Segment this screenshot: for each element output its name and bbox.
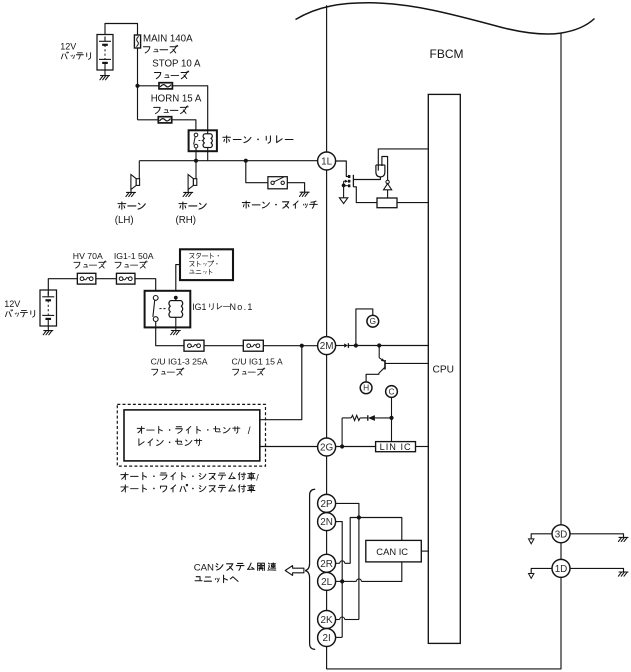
- wire MOSFET gate to resistor network: [353, 187, 377, 203]
- wire start-stop unit to relay coil: [176, 265, 180, 298]
- node: sensor tap junction: [300, 344, 304, 348]
- resistor R1 (box): [377, 198, 397, 208]
- LIN IC box U2: [376, 442, 416, 452]
- label horn (LH): [118, 202, 145, 209]
- connector C: [386, 386, 398, 398]
- horn (RH) speaker: [188, 175, 197, 190]
- svg-text:3D: 3D: [555, 529, 568, 540]
- wire 2G to LIN IC: [336, 446, 376, 448]
- svg-text:2G: 2G: [320, 442, 333, 453]
- wire to horn LH: [138, 161, 140, 179]
- ground horn RH: [187, 190, 189, 193]
- ground IG1 relay coil: [171, 331, 181, 335]
- horn relay coil: [207, 130, 209, 134]
- wire sensor to 2G: [260, 446, 318, 448]
- resistor R2 zigzag: [351, 415, 360, 420]
- wire node down to LIN IC: [391, 418, 393, 442]
- node: transistor branch junction: [377, 343, 381, 347]
- wire 2R with hop to CAN-H rail: [336, 562, 340, 564]
- svg-text:CAN: CAN: [194, 562, 214, 573]
- svg-text:(LH): (LH): [115, 215, 134, 226]
- connector 2R: [318, 554, 336, 572]
- battery B2 12V: [40, 290, 57, 326]
- horn (LH) speaker: [131, 175, 140, 190]
- wire transistor to H connector: [366, 373, 379, 382]
- FBCM right boundary wire: [560, 33, 562, 525]
- ground 1D: [618, 572, 628, 576]
- wire pullup branch: [342, 417, 351, 419]
- connector 2L: [318, 572, 336, 590]
- CPU box U1: [428, 94, 460, 643]
- svg-text:IG1-1 50A: IG1-1 50A: [114, 251, 154, 261]
- connector G: [367, 315, 379, 327]
- wire source to logic-ground triangle: [343, 185, 345, 197]
- node: CAN-L 2L junction: [340, 579, 344, 583]
- connector 3D: [552, 525, 570, 543]
- start-stop unit box: [180, 249, 233, 280]
- node: horn switch junction: [244, 159, 248, 163]
- wire 1D left to page arrow: [531, 568, 552, 573]
- fuse C/U IG1-3 25A: [184, 340, 204, 351]
- svg-text:2I: 2I: [322, 633, 330, 644]
- CAN system arrow: [285, 566, 304, 576]
- connector 2P: [318, 494, 336, 512]
- wire 1L to MOSFET drain: [336, 161, 348, 177]
- wire tube to MOSFET bar: [353, 177, 380, 180]
- wire 2N to CAN-L rail: [336, 522, 343, 638]
- svg-text:G: G: [370, 316, 377, 326]
- wire to horn RH: [195, 161, 197, 179]
- svg-text:2L: 2L: [321, 577, 332, 588]
- wire resistor to CPU: [397, 202, 428, 204]
- svg-text:(RH): (RH): [176, 215, 196, 226]
- connector 1D: [552, 559, 570, 577]
- svg-text:HV 70A: HV 70A: [73, 251, 103, 261]
- wire IG1-1 fuse to relay: [135, 279, 156, 296]
- connector 1L: [318, 152, 336, 170]
- auto light/rain sensor dashed box: [117, 404, 265, 466]
- svg-text:MAIN 140A: MAIN 140A: [143, 34, 193, 45]
- node: CAN-H junction: [357, 515, 361, 519]
- wire 3D left to page arrow: [531, 534, 552, 539]
- connector 2G: [318, 438, 336, 456]
- diode D2: [367, 415, 369, 421]
- system notes: [121, 472, 255, 480]
- inline connector symbol: [344, 343, 348, 347]
- svg-text:2R: 2R: [320, 559, 333, 570]
- FBCM module boundary curve: [296, 3, 595, 34]
- horn relay label: [223, 136, 293, 143]
- node: 2G junction: [340, 444, 344, 448]
- wire LIN IC to CPU: [416, 446, 429, 448]
- wire C to LIN node: [391, 397, 393, 418]
- wire battery2 to HV fuse: [48, 279, 77, 295]
- svg-text:2K: 2K: [321, 615, 333, 626]
- horn switch SW1: [268, 177, 287, 189]
- horn switch label: [242, 201, 317, 208]
- svg-text:12V: 12V: [4, 299, 20, 309]
- battery label: [61, 52, 90, 59]
- wire to horn switch: [246, 161, 268, 183]
- wire battery1 to MAIN fuse: [105, 24, 138, 36]
- logic ground triangle: [339, 198, 347, 204]
- node: junction MAIN/STOP/HORN: [135, 84, 139, 88]
- svg-text:12V: 12V: [60, 41, 76, 51]
- fuse MAIN 140A: [134, 35, 140, 48]
- connector 2K: [318, 611, 336, 629]
- wire tap down to sensor box: [260, 346, 302, 420]
- battery B1 12V: [97, 35, 113, 71]
- ground horn LH: [130, 190, 132, 193]
- wire junction down to HORN fuse line: [137, 86, 139, 120]
- label horn (RH): [179, 202, 206, 209]
- wire 2G up branch: [341, 418, 343, 447]
- brace for CAN connectors: [305, 489, 315, 649]
- ground below battery2: [47, 326, 49, 331]
- svg-text:2N: 2N: [320, 517, 333, 528]
- IG1 relay No.1 box: [145, 291, 191, 328]
- node: G branch junction: [354, 343, 358, 347]
- svg-text:1L: 1L: [321, 156, 332, 167]
- connector 2M: [318, 337, 336, 355]
- wire 2L with hop to CAN IC: [336, 580, 343, 582]
- node: coil top junction: [174, 296, 178, 300]
- svg-text:No.1: No.1: [230, 302, 254, 312]
- connector 2N: [318, 513, 336, 531]
- ground 3D: [618, 537, 628, 541]
- svg-text:CPU: CPU: [433, 365, 455, 376]
- svg-text:HORN 15 A: HORN 15 A: [151, 93, 202, 104]
- wire to G connector: [356, 309, 373, 346]
- fuse HV 70A: [77, 273, 96, 284]
- node: MOSFET source junction: [342, 184, 346, 188]
- svg-text:1D: 1D: [555, 564, 568, 575]
- MOSFET body arrow + source: [344, 180, 348, 182]
- svg-text:CAN IC: CAN IC: [376, 546, 408, 557]
- wire HV to IG1-1 fuse: [96, 278, 117, 280]
- wire junction to STOP fuse to relay coil: [138, 86, 208, 131]
- IG1 relay switch: [153, 296, 158, 301]
- ground horn switch: [300, 192, 310, 196]
- node: LIN pullup junction: [389, 416, 393, 420]
- wire 2P to CAN-H rail: [336, 503, 359, 619]
- wire IG1 relay to C/U fuses to 2M: [156, 322, 318, 346]
- connector H: [360, 382, 372, 394]
- svg-text:STOP 10 A: STOP 10 A: [152, 58, 201, 69]
- horn relay box: [189, 130, 217, 151]
- wire CAN IC to CPU: [421, 550, 428, 552]
- svg-text:FBCM: FBCM: [430, 47, 464, 61]
- svg-text:/: /: [248, 426, 251, 437]
- wire HORN fuse line to relay switch: [138, 120, 196, 131]
- transistor Q2: [378, 346, 380, 358]
- fuse STOP 10 A: [159, 83, 172, 89]
- svg-text:2P: 2P: [321, 499, 333, 510]
- ground below battery1: [104, 70, 106, 76]
- wire CAN-H junction to CAN IC: [359, 518, 402, 541]
- IG1 relay coil: [175, 298, 177, 301]
- svg-text:C/U IG1 15 A: C/U IG1 15 A: [232, 356, 283, 366]
- wire: bus bottom to right boundary: [327, 577, 561, 669]
- fuse C/U IG1 15 A: [243, 340, 263, 351]
- svg-text:IG1: IG1: [192, 302, 206, 312]
- fuse IG1-1 50A: [116, 273, 135, 284]
- connector 2I: [318, 629, 336, 647]
- wire 3D right to ground: [570, 534, 623, 538]
- current sense element (tube): [376, 165, 385, 177]
- wire tube to zener: [382, 157, 388, 181]
- wire horn switch to ground: [287, 183, 304, 193]
- horn feed line to 1L: [139, 160, 317, 162]
- svg-text:2M: 2M: [320, 341, 334, 352]
- zener/thermistor symbol D1: [386, 180, 389, 183]
- MOSFET Q1 (high-side driver): [348, 175, 350, 187]
- horn relay switch contacts: [194, 133, 198, 137]
- node: horn RH junction: [194, 159, 198, 163]
- fuse HORN 15 A: [158, 117, 171, 123]
- wire CPU to tube: [378, 149, 428, 171]
- wire 1D right to ground: [570, 568, 623, 572]
- svg-text:C: C: [388, 386, 394, 396]
- wire 2K with hop to CAN-H rail: [336, 619, 340, 621]
- wire relay switch to horn line: [195, 148, 197, 161]
- svg-text:/: /: [256, 472, 259, 482]
- svg-text:H: H: [363, 383, 369, 393]
- wire MAIN fuse to junction: [137, 48, 139, 86]
- wire 2M to CPU: [336, 345, 345, 347]
- CAN IC box U3: [366, 540, 422, 562]
- svg-text:C/U IG1-3 25A: C/U IG1-3 25A: [151, 356, 208, 366]
- FBCM left boundary / connector bus wire: [326, 5, 328, 152]
- wire 2I to CAN-L rail: [336, 636, 343, 638]
- svg-text:LIN IC: LIN IC: [380, 442, 412, 452]
- sensor unit box: [124, 410, 260, 461]
